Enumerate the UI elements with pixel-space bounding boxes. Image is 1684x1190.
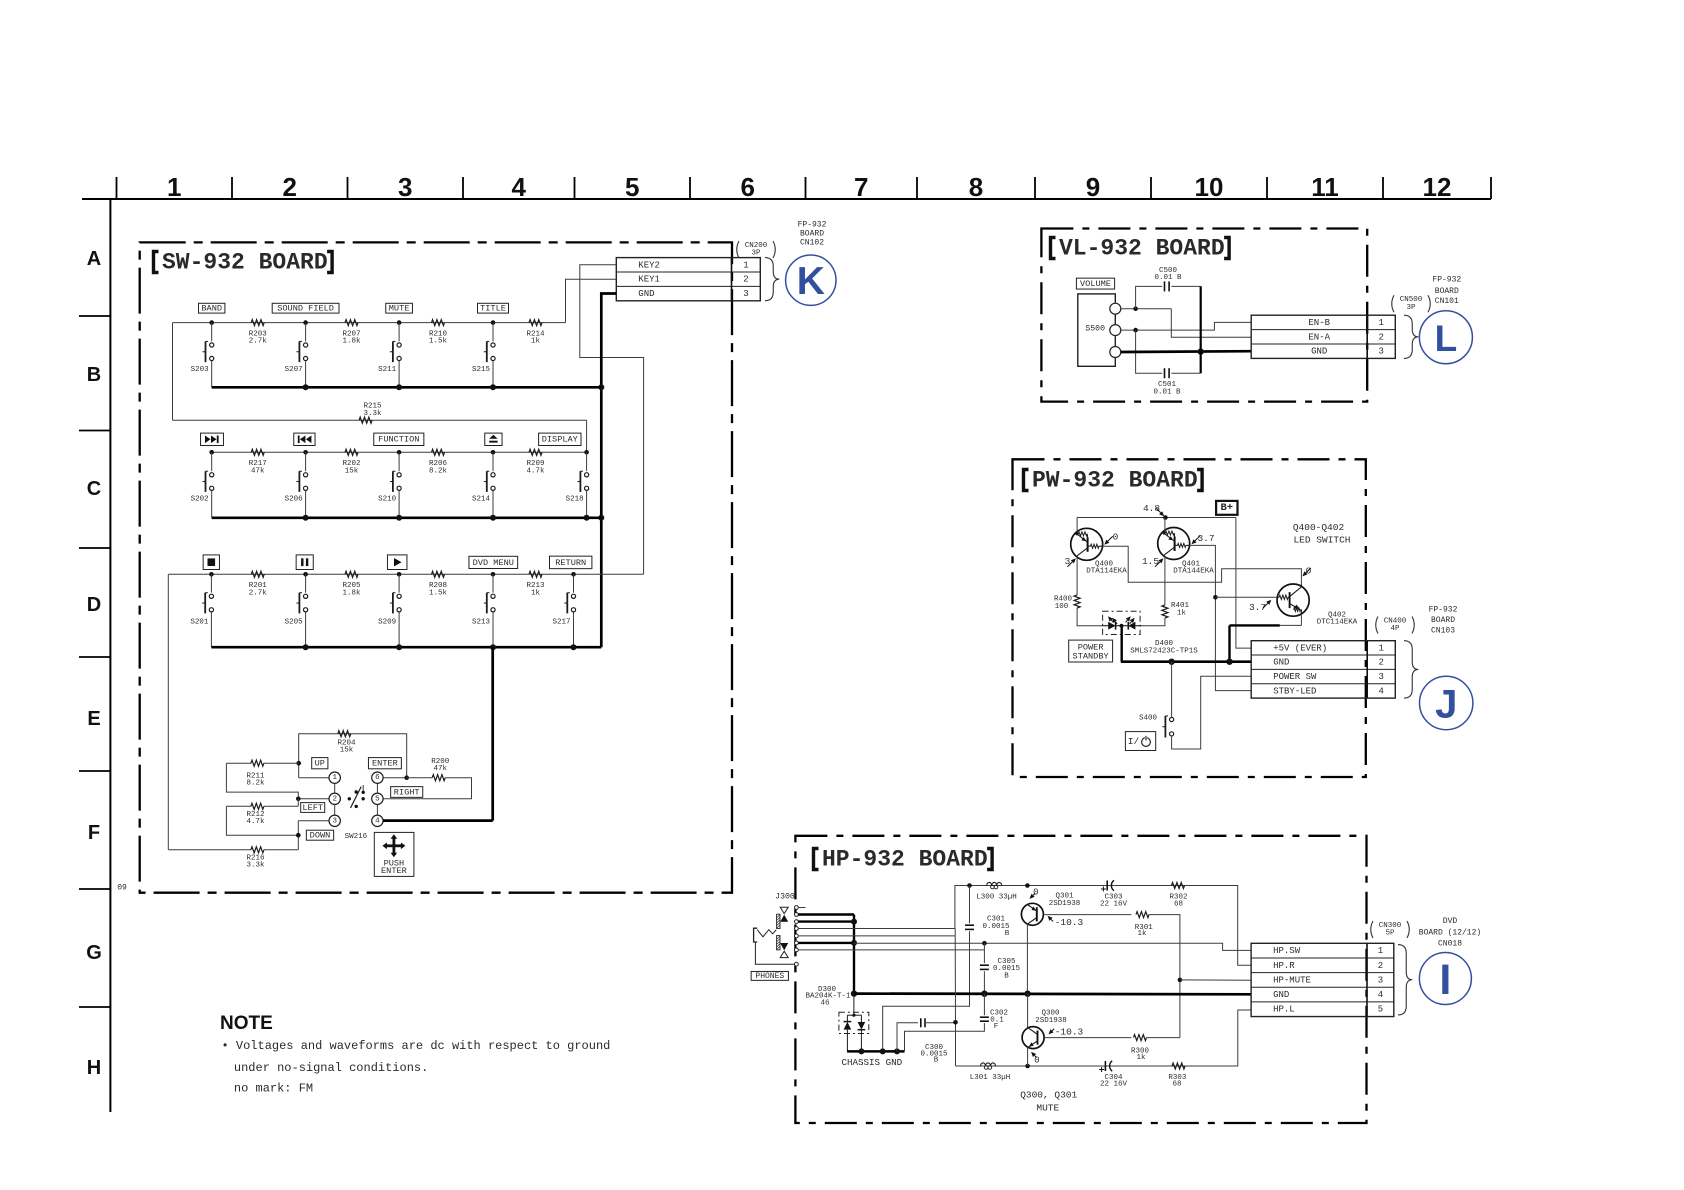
svg-text:S205: S205 [285,619,304,627]
svg-text:GND: GND [1273,658,1289,668]
svg-text:UP: UP [315,759,325,769]
svg-text:S213: S213 [472,619,491,627]
svg-text:SW216: SW216 [345,833,368,841]
wire Q402 base [1215,596,1277,598]
svg-text:BAND: BAND [201,304,222,314]
svg-text:KEY1: KEY1 [638,275,660,285]
CHASSIS GND bus (thick) [847,1050,904,1053]
resistor R200 47k [407,777,433,779]
svg-text:1: 1 [167,172,181,202]
capacitor C501 0.01 B [1164,368,1166,378]
svg-text:3P: 3P [751,250,761,258]
svg-text:RIGHT: RIGHT [394,787,420,797]
svg-text:3: 3 [1379,347,1384,357]
resistor R213 1k [529,571,542,577]
resistor R208 1.5k [432,571,445,577]
left margin row ticks [79,316,110,1007]
wire jack ring to mute [798,935,955,937]
transistor Q401 DTA144EKA [1158,528,1190,560]
svg-text:F: F [88,822,100,844]
svg-text:3: 3 [332,817,337,825]
label box ENTER [368,758,401,769]
svg-text:3: 3 [398,172,412,202]
svg-text:CN500: CN500 [1400,296,1423,304]
svg-text:C: C [87,478,101,500]
wire row D rail [168,573,643,575]
resistor R302 68 [1172,883,1185,889]
svg-text:VOLUME: VOLUME [1080,279,1111,289]
svg-text:1.8k: 1.8k [342,338,361,346]
svg-text:KEY2: KEY2 [638,260,660,270]
wire Q402 emitter to GND [1300,614,1302,625]
wire R401 to D400 [1140,618,1165,626]
capacitor C304 22 16V [1104,1061,1106,1071]
switch S203 (BAND) [191,303,225,387]
inductor L300 33uH [987,882,1002,885]
switch S207 (SOUND FIELD) [272,303,339,387]
svg-text:4: 4 [375,817,380,825]
svg-text:ENTER: ENTER [372,759,398,769]
svg-text:2SD1938: 2SD1938 [1035,1017,1067,1025]
svg-text:• Voltages and waveforms are d: • Voltages and waveforms are dc with res… [222,1039,611,1053]
svg-text:LED SWITCH: LED SWITCH [1293,535,1350,546]
svg-text:2: 2 [1379,332,1384,342]
connector CN300 table [1251,943,1394,1016]
svg-text:15k: 15k [345,467,359,475]
left margin vertical line [109,199,111,1112]
wire S400 to POWER SW row [1172,676,1252,749]
connector circle L [1419,311,1472,364]
svg-text:EN-A: EN-A [1308,332,1330,342]
svg-text:1k: 1k [531,338,541,346]
svg-text:J300: J300 [775,893,795,902]
VL-932 board title [1051,238,1056,259]
svg-text:1k: 1k [1177,610,1187,618]
capacitor C305 0.0015 B [983,943,985,963]
svg-text:HP.L: HP.L [1273,1005,1295,1015]
svg-text:SW-932 BOARD: SW-932 BOARD [162,250,328,276]
wire Q400 top [1076,518,1078,532]
svg-text:RETURN: RETURN [555,558,586,568]
svg-text:HP-932 BOARD: HP-932 BOARD [822,847,988,873]
wire row B rail [173,322,566,324]
wire Q401 base to STBY [1190,545,1251,690]
resistor R300 1k [1134,1035,1147,1041]
svg-text:7: 7 [854,172,868,202]
brace for connector J [1404,641,1418,698]
svg-text:CN300: CN300 [1379,922,1402,930]
wire R400 to D400 [1077,608,1103,626]
svg-text:46: 46 [820,1000,830,1008]
svg-text:1.8k: 1.8k [342,589,361,597]
svg-text:MUTE: MUTE [1036,1103,1059,1114]
svg-text:PHONES: PHONES [755,972,784,981]
svg-text:22 16V: 22 16V [1100,1081,1128,1089]
connector CN200 table (KEY2/KEY1/GND) [616,258,760,301]
resistor R212 4.7k [226,805,251,807]
brace for connector I [1398,945,1412,1015]
svg-text:PW-932 BOARD: PW-932 BOARD [1032,468,1198,494]
svg-text:2.7k: 2.7k [249,589,268,597]
wire KEY2 to row D rail [580,265,644,575]
svg-text:10: 10 [1195,172,1224,202]
svg-text:B+: B+ [1220,502,1233,514]
switch S218 [539,433,589,518]
wire row B left drop to R215 rail [172,323,174,421]
svg-text:1: 1 [743,260,748,270]
wire row C rail [212,451,587,453]
svg-text:9: 9 [1086,172,1100,202]
svg-text:L: L [1435,318,1458,359]
wire R300 right [1147,1037,1180,1039]
wire pin2 feed [298,798,329,800]
svg-text:8: 8 [969,172,983,202]
transistor Q300 2SD1938 [1022,1027,1044,1049]
svg-text:CN103: CN103 [1431,627,1455,636]
svg-text:2: 2 [283,172,297,202]
phone jack J300 [754,893,806,967]
resistor R204 15k [338,731,351,737]
svg-text:12: 12 [1423,172,1452,202]
capacitor C300 0.0015 B [897,1023,918,1052]
svg-text:1: 1 [1379,643,1384,653]
svg-text:GND: GND [638,289,654,299]
connector circle J [1420,676,1473,729]
svg-text:no mark: FM: no mark: FM [234,1081,313,1095]
svg-text:TITLE: TITLE [480,304,506,314]
svg-text:E: E [87,708,100,730]
switch S209 [378,555,407,647]
svg-text:8.2k: 8.2k [246,780,265,788]
svg-text:2: 2 [1379,658,1384,668]
wire GND bus from CN200 (thick) [601,294,616,648]
svg-text:S215: S215 [472,366,491,374]
svg-text:S218: S218 [566,496,584,504]
label box DOWN [306,830,333,840]
svg-text:S207: S207 [285,366,303,374]
svg-text:Q400-Q402: Q400-Q402 [1293,522,1345,533]
svg-text:+5V (EVER): +5V (EVER) [1273,643,1327,653]
wire R200 feed [383,777,407,779]
svg-text:CN102: CN102 [800,239,824,248]
wire Q400 collector to R400 [1076,557,1078,595]
svg-text:5: 5 [625,172,639,202]
svg-text:15k: 15k [340,747,354,755]
wire HP-MUTE row [1180,979,1251,981]
wire R212 left to pin3 node [226,806,298,835]
wire C500 branch [1136,286,1163,308]
wire row B bottom bus (thick) [212,386,602,389]
POWER STANDBY label box [1069,640,1113,662]
wire Q301 base to R301 [1043,914,1131,916]
svg-text:CN101: CN101 [1435,297,1459,306]
wire Q401 top [1164,518,1166,531]
svg-text:3P: 3P [1406,304,1416,312]
svg-text:CN400: CN400 [1384,617,1407,625]
resistor R207 1.8k [345,320,358,326]
svg-text:BOARD: BOARD [1431,616,1455,625]
wire pin1 feed [299,777,329,779]
svg-text:S201: S201 [190,619,209,627]
svg-text:4.8: 4.8 [1143,503,1160,514]
svg-text:S214: S214 [472,496,491,504]
wire jack tip to HP.R [798,928,955,930]
wire Q400 base to Q402 collector [1103,546,1302,587]
svg-text:3.3k: 3.3k [363,410,382,418]
label box LEFT [301,803,325,813]
svg-text:DVD MENU: DVD MENU [473,558,514,568]
transistor Q400 DTA114EKA [1071,528,1103,560]
svg-text:1k: 1k [1137,930,1147,938]
svg-text:A: A [87,248,101,270]
svg-text:3: 3 [1378,975,1383,985]
svg-text:FP-932: FP-932 [1429,606,1458,615]
switch S217 [550,556,592,647]
resistor R301 1k [1136,912,1149,918]
svg-text:11: 11 [1311,172,1339,202]
wire R211 left to pin2 node [226,763,298,799]
wire HP GND bus (thick) [854,992,1251,995]
svg-text:8.2k: 8.2k [429,467,448,475]
SW-932 board dashed border [140,242,732,892]
svg-text:SMLS72423C-TP1S: SMLS72423C-TP1S [1130,647,1198,655]
svg-text:B: B [934,1057,939,1065]
svg-text:5: 5 [375,795,380,803]
svg-text:S400: S400 [1139,715,1158,723]
svg-text:BOARD (12/12): BOARD (12/12) [1419,928,1481,937]
wire HP.L bottom rail [956,1010,1252,1066]
svg-text:SOUND FIELD: SOUND FIELD [277,304,334,314]
switch S211 (MUTE) [378,303,412,387]
wire row D bottom bus (thick) [211,646,601,649]
PHONES label box [751,971,788,980]
wire C501 branch [1136,330,1163,373]
wire jack switch contact [798,949,984,951]
PUSH ENTER legend box [374,832,414,876]
wire row C bottom bus (thick) [212,516,602,519]
connector CN400 table [1251,641,1395,698]
svg-text:0.01 B: 0.01 B [1154,274,1182,282]
switch S201 [190,555,219,647]
svg-text:-10.3: -10.3 [1055,917,1084,928]
svg-text:100: 100 [1055,603,1069,611]
svg-text:CHASSIS GND: CHASSIS GND [841,1057,902,1068]
svg-text:1.5k: 1.5k [429,589,448,597]
svg-text:G: G [86,942,102,964]
wire row D left drop to R216 [167,574,169,850]
svg-text:1k: 1k [1136,1054,1146,1062]
wire mute line from jack [954,936,956,1066]
capacitor C500 0.01 B [1164,281,1166,291]
wire B+ rail [1077,517,1236,519]
svg-text:Q300, Q301: Q300, Q301 [1020,1090,1077,1101]
PW-932 board dashed border [1013,459,1366,777]
brace for connector L [1404,315,1418,358]
resistor R209 4.7k [529,449,542,455]
ruler column ticks [117,177,1492,199]
switch S215 (TITLE) [472,303,509,387]
svg-text:EN-B: EN-B [1308,318,1330,328]
I/O power label box [1125,732,1155,751]
wire HP.SW [854,943,1251,950]
svg-text:2SD1938: 2SD1938 [1049,900,1081,908]
svg-text:F: F [994,1023,999,1031]
svg-text:3: 3 [1379,672,1384,682]
svg-text:POWER SW: POWER SW [1273,672,1317,682]
svg-text:4.7k: 4.7k [526,467,545,475]
svg-text:S202: S202 [191,496,209,504]
svg-text:DISPLAY: DISPLAY [542,435,578,445]
svg-text:0: 0 [1306,566,1312,577]
wire jack sleeve (thick) [798,913,854,915]
svg-text:4P: 4P [1390,625,1400,633]
svg-text:S217: S217 [552,619,570,627]
wire PW GND row (thick) [1121,660,1251,663]
svg-text:VL-932 BOARD: VL-932 BOARD [1059,236,1225,262]
svg-text:HP.SW: HP.SW [1273,946,1301,956]
svg-text:DTA114EKA: DTA114EKA [1086,568,1127,576]
wire D400 center to GND (thick) [1120,626,1122,662]
photo-LED D400 SMLS72423C-TP1S [1103,611,1199,655]
wire Q300 collector [1027,994,1029,1028]
svg-text:DTA144EKA: DTA144EKA [1173,568,1214,576]
svg-text:under no-signal conditions.: under no-signal conditions. [234,1061,428,1075]
switch S210 [374,433,424,518]
label box UP [312,758,328,769]
left margin row letters A-H [86,248,102,1079]
svg-text:CN200: CN200 [745,242,768,250]
svg-text:1: 1 [332,774,337,782]
wire R200 to pin5 [383,778,471,799]
svg-text:2: 2 [332,795,337,803]
svg-text:4.7k: 4.7k [246,818,265,826]
svg-text:S211: S211 [378,366,397,374]
svg-text:HP-MUTE: HP-MUTE [1273,975,1311,985]
svg-text:0: 0 [1033,887,1038,897]
svg-text:22 16V: 22 16V [1100,901,1128,909]
svg-text:47k: 47k [251,467,265,475]
wire S500 pin2 to EN-B [1121,322,1251,330]
svg-text:4: 4 [1378,990,1383,1000]
HP-932 board title [814,849,819,870]
svg-text:2: 2 [1378,961,1383,971]
svg-text:I: I [1439,956,1451,1004]
PW-932 board title [1024,470,1029,491]
wire Q300 base to R300 [1044,1037,1131,1039]
switch S213 [469,556,518,647]
switch S206 [285,433,315,518]
diode D300 BA204K-T-1 [805,986,868,1051]
svg-text:GND: GND [1311,347,1327,357]
resistor R202 15k [345,449,358,455]
svg-text:B: B [1004,972,1009,980]
svg-text:47k: 47k [434,765,448,773]
label box RIGHT [391,787,423,798]
capacitor C301 0.0015 B [969,886,971,924]
svg-text:S209: S209 [378,619,396,627]
switch S400 [1162,716,1173,738]
svg-text:4: 4 [512,172,527,202]
switch S202 [191,433,224,518]
wire pin3 feed [298,820,329,822]
svg-text:HP.R: HP.R [1273,961,1295,971]
svg-text:BOARD: BOARD [800,229,824,238]
svg-text:STANDBY: STANDBY [1073,652,1109,662]
brace for connector K [765,258,779,301]
svg-text:CN018: CN018 [1438,939,1462,948]
resistor R214 1k [529,320,542,326]
svg-text:L301 33µH: L301 33µH [970,1074,1011,1082]
svg-text:1: 1 [1378,946,1383,956]
resistor R216 3.3k [168,849,251,851]
switch S214 [472,433,502,518]
switch S205 [285,555,314,647]
svg-text:K: K [797,260,825,303]
svg-text:S210: S210 [378,496,397,504]
inductor L301 33uH [981,1063,996,1066]
svg-text:2: 2 [743,275,748,285]
resistor R400 100 [1074,595,1080,608]
wire HP.R top rail [955,886,1251,966]
wire B+ to +5V row [1236,518,1251,649]
svg-text:FP-932: FP-932 [798,220,827,229]
page frame top ruler line [82,198,1491,200]
ruler column numbers 1-12 [167,172,1451,202]
rotary/nav switch SW216 [329,772,383,841]
svg-text:ENTER: ENTER [381,866,407,876]
svg-text:DVD: DVD [1443,917,1458,926]
svg-text:09: 09 [117,884,127,893]
svg-text:B: B [1005,930,1010,938]
SW-932 board title [154,252,159,273]
wire KEY1 to row B rail [566,279,617,322]
wire Q401 collector to R401 [1164,556,1166,605]
wire R212 right to pin2 node [297,799,299,807]
svg-text:STBY-LED: STBY-LED [1273,686,1316,696]
resistor R206 8.2k [432,449,445,455]
svg-text:S206: S206 [285,496,304,504]
wire C500-C501 gnd vertical (thick) [1200,286,1202,373]
capacitor C303 22 16V [1106,881,1108,891]
svg-text:S500: S500 [1085,324,1105,333]
svg-text:GND: GND [1273,990,1289,1000]
svg-text:3.3k: 3.3k [246,862,265,870]
svg-text:2.7k: 2.7k [249,338,268,346]
svg-text:FUNCTION: FUNCTION [378,435,419,445]
transistor Q402 DTC114EKA [1277,584,1309,616]
resistor R203 2.7k [251,320,264,326]
svg-text:6: 6 [375,774,380,782]
resistor R211 8.2k [226,762,251,764]
connector circle K [786,255,836,305]
label box VOLUME [1076,278,1114,289]
svg-text:0: 0 [1113,531,1119,542]
resistor R401 1k [1162,605,1168,618]
svg-text:J: J [1435,683,1457,727]
VL-932 board dashed border [1041,229,1367,402]
wire S500 pin3 GND (thick) [1121,350,1251,353]
resistor R215 3.3k [359,417,372,423]
svg-text:6: 6 [741,172,755,202]
svg-text:4: 4 [1379,686,1384,696]
svg-text:DTC114EKA: DTC114EKA [1317,619,1358,627]
svg-text:1k: 1k [531,589,541,597]
svg-text:I/: I/ [1128,736,1140,747]
wire R301 to HP-MUTE [1149,915,1180,1038]
svg-text:D: D [87,594,101,616]
resistor R217 47k [251,449,264,455]
svg-text:-10.3: -10.3 [1055,1027,1084,1038]
